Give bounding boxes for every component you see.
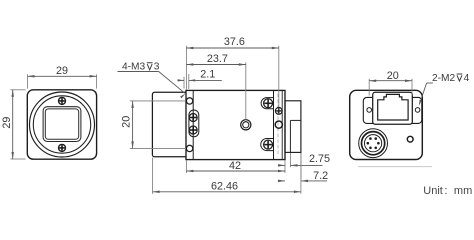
svg-text:20: 20 — [121, 116, 133, 128]
svg-text:20: 20 — [387, 70, 399, 82]
svg-text:29: 29 — [56, 65, 68, 77]
svg-text:42: 42 — [229, 160, 241, 172]
svg-text:2-M2: 2-M2 — [432, 73, 456, 84]
svg-text:29: 29 — [1, 117, 13, 129]
svg-text:4-M3: 4-M3 — [122, 62, 146, 73]
svg-text:4: 4 — [464, 73, 470, 84]
svg-text:62.46: 62.46 — [211, 181, 238, 193]
svg-text:37.6: 37.6 — [224, 36, 245, 48]
svg-text:2.1: 2.1 — [200, 69, 215, 81]
svg-text:7.2: 7.2 — [313, 170, 328, 182]
svg-text:23.7: 23.7 — [207, 53, 228, 65]
svg-text:2.75: 2.75 — [309, 153, 330, 165]
svg-text:3: 3 — [154, 62, 160, 73]
